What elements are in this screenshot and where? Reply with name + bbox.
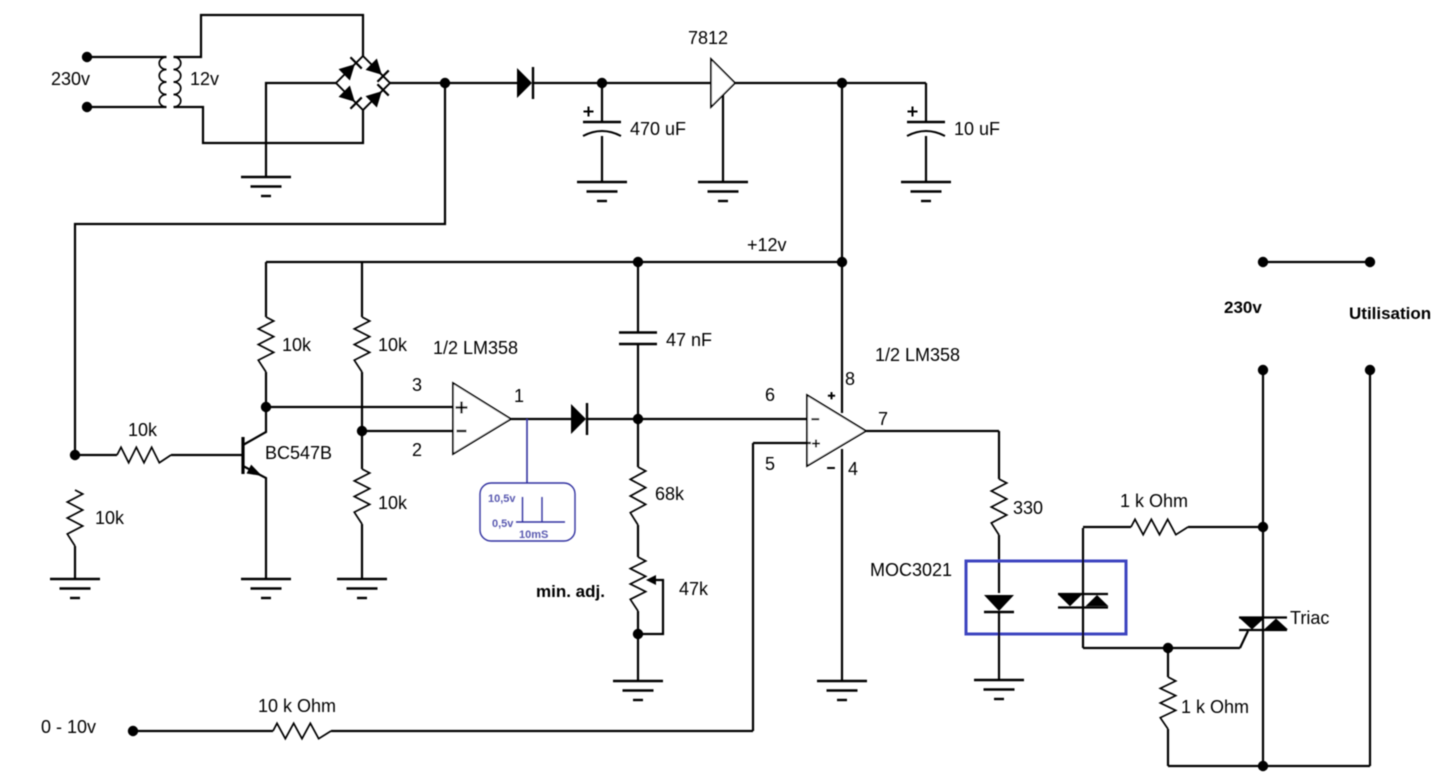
svg-text:230v: 230v [51,69,90,89]
svg-text:470 uF: 470 uF [630,119,686,139]
svg-text:68k: 68k [655,484,685,504]
svg-text:1/2 LM358: 1/2 LM358 [433,338,518,358]
svg-text:47k: 47k [679,579,709,599]
svg-text:12v: 12v [190,69,219,89]
svg-text:BC547B: BC547B [265,443,332,463]
svg-text:+12v: +12v [747,235,787,255]
svg-text:10k: 10k [282,335,312,355]
svg-text:8: 8 [845,369,855,389]
svg-text:10k: 10k [128,420,158,440]
svg-text:MOC3021: MOC3021 [870,560,952,580]
svg-text:0 - 10v: 0 - 10v [41,717,96,737]
svg-text:47 nF: 47 nF [666,330,712,350]
svg-text:7812: 7812 [688,28,728,48]
svg-text:10 k Ohm: 10 k Ohm [258,696,336,716]
svg-text:10 uF: 10 uF [954,119,1000,139]
svg-text:1 k Ohm: 1 k Ohm [1181,697,1249,717]
svg-text:7: 7 [878,409,888,429]
svg-text:1 k Ohm: 1 k Ohm [1120,491,1188,511]
svg-text:4: 4 [848,459,858,479]
svg-text:10k: 10k [378,493,408,513]
svg-text:10mS: 10mS [519,529,548,541]
svg-text:10,5v: 10,5v [488,493,516,505]
svg-text:min. adj.: min. adj. [536,582,605,601]
svg-text:Utilisation: Utilisation [1349,304,1431,323]
svg-text:0,5v: 0,5v [492,518,514,530]
svg-text:1: 1 [514,386,524,406]
svg-text:230v: 230v [1224,298,1262,317]
svg-text:3: 3 [412,375,422,395]
svg-text:10k: 10k [95,508,125,528]
svg-text:5: 5 [765,454,775,474]
svg-text:330: 330 [1013,498,1043,518]
svg-text:6: 6 [765,385,775,405]
svg-text:Triac: Triac [1290,608,1329,628]
svg-text:10k: 10k [378,335,408,355]
svg-text:1/2 LM358: 1/2 LM358 [875,345,960,365]
svg-text:2: 2 [412,440,422,460]
